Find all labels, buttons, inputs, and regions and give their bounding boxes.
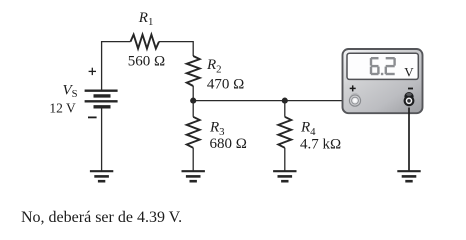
meter positive terminal — [349, 93, 360, 106]
wire battery to ground — [101, 108, 103, 171]
ground below R4 — [273, 171, 296, 181]
voltmeter display — [347, 53, 418, 79]
battery VS plate short bottom — [94, 105, 111, 108]
resistor R3 zigzag — [187, 117, 200, 148]
svg-text:No, deberá ser de 4.39 V.: No, deberá ser de 4.39 V. — [21, 209, 182, 226]
wire meter to ground — [408, 108, 410, 172]
meter plus sign — [350, 85, 356, 91]
decimal point — [381, 73, 383, 75]
battery VS plate long lower — [85, 100, 118, 102]
ground below meter — [397, 171, 420, 181]
svg-text:VS: VS — [63, 83, 78, 100]
wire R4 to ground — [284, 148, 286, 171]
ground below battery — [90, 171, 113, 181]
voltmeter body — [343, 49, 423, 113]
resistor R4 zigzag — [278, 117, 291, 148]
wire main horizontal node A to meter — [193, 100, 351, 102]
battery VS plate short upper — [94, 94, 111, 97]
wire top-left from source to R1 — [102, 42, 131, 90]
svg-text:560 Ω: 560 Ω — [128, 54, 165, 70]
node A junction dot — [190, 98, 196, 104]
wire node B to R4 — [284, 101, 286, 117]
ground below R3 — [182, 171, 205, 181]
wire node A to R3 — [192, 101, 194, 117]
seven-segment digit 6 — [370, 57, 380, 75]
resistor R2 zigzag — [187, 56, 200, 86]
svg-text:R1: R1 — [138, 10, 154, 28]
seven-segment digit 2 — [385, 57, 396, 75]
resistor R1 zigzag — [131, 35, 159, 49]
svg-text:680 Ω: 680 Ω — [210, 136, 247, 152]
battery VS plate long top — [85, 89, 118, 91]
meter negative terminal — [404, 92, 415, 106]
node B junction dot — [282, 98, 288, 104]
wire R3 to ground — [192, 148, 194, 171]
battery plus sign — [89, 68, 96, 75]
battery minus sign — [88, 116, 97, 118]
svg-text:R2: R2 — [206, 57, 222, 76]
svg-text:4.7 kΩ: 4.7 kΩ — [300, 136, 341, 152]
svg-text:V: V — [404, 64, 414, 79]
meter minus sign — [408, 88, 413, 90]
wire from R2 to node A — [192, 86, 194, 101]
svg-text:12 V: 12 V — [49, 101, 76, 116]
wire from R1 to R2 — [159, 42, 193, 56]
svg-text:470 Ω: 470 Ω — [207, 77, 244, 93]
